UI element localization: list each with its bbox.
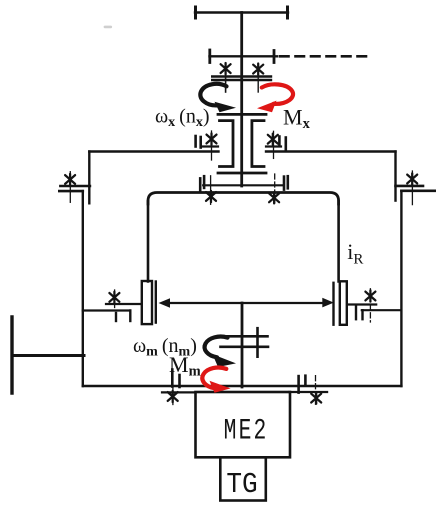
planet gear left [142, 281, 156, 324]
carrier bearing left [200, 176, 216, 205]
dashed reference line [280, 55, 373, 58]
carrier right arm [337, 201, 340, 282]
hub bracket right [252, 121, 264, 167]
upper frame bar [210, 50, 278, 63]
housing bottom [83, 385, 402, 387]
carrier left arm [147, 201, 150, 282]
planet gear right [334, 281, 347, 325]
lower rotation arrow black [205, 337, 236, 367]
planet bearing right [348, 289, 402, 322]
hub bracket left [220, 121, 234, 167]
hub bearing left [196, 131, 218, 160]
upper rotation arrow black [200, 84, 236, 112]
ME2 box [196, 392, 291, 457]
carrier link line [203, 184, 283, 186]
input shaft [240, 13, 243, 187]
housing right wall [400, 191, 402, 386]
bearing upper-left [221, 63, 231, 92]
motor shaft [241, 303, 244, 387]
input shaft top bar [195, 7, 288, 18]
bevel mesh [221, 328, 269, 357]
TG box [220, 457, 265, 500]
svg-text:TG: TG [226, 469, 257, 502]
hub bearing right [266, 131, 286, 158]
hub bottom flange [218, 172, 266, 175]
hub top flange [218, 113, 266, 116]
planet bearing left [83, 290, 141, 321]
cross shaft with arrows [159, 298, 334, 308]
upper rotation arrow red [257, 84, 293, 112]
housing top right [266, 150, 396, 152]
motor bearing right [289, 376, 327, 405]
housing top left [89, 150, 218, 152]
faint scan smudge [104, 26, 113, 29]
housing left wall upper [88, 152, 90, 204]
gear rim double line [212, 77, 271, 81]
carrier bearing right [269, 174, 288, 205]
carrier top [148, 193, 339, 205]
housing corner bearing left [59, 172, 90, 203]
motor bearing left [162, 370, 196, 405]
lower rotation arrow red [202, 368, 230, 393]
svg-text:ME2: ME2 [224, 413, 269, 448]
housing right wall upper [394, 152, 396, 201]
housing corner bearing right [396, 171, 435, 205]
housing left wall [82, 191, 84, 386]
reaction lever [12, 317, 84, 393]
bearing upper-right [253, 64, 263, 93]
